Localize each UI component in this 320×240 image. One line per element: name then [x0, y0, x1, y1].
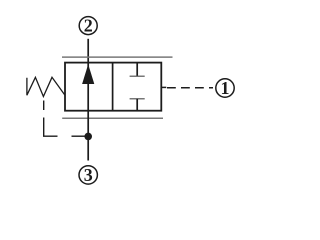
blocked port T bottom stem [136, 99, 138, 111]
blocked port T top bar [130, 75, 145, 77]
infinite-positioning rail top [62, 56, 173, 58]
svg-text:1: 1 [221, 78, 230, 98]
port circle 1 [216, 78, 234, 98]
stub to port 1 [161, 86, 166, 88]
port circle 2 [79, 16, 97, 36]
dashed spring-chamber drain: horizontal dash [72, 135, 85, 137]
junction node [84, 133, 92, 141]
flow arrow (poppet) [82, 64, 94, 84]
wire port2 to valve body [87, 39, 89, 63]
dashed pilot line to port 1 [167, 87, 213, 89]
envelope divider [112, 63, 114, 111]
port circle 3 [79, 165, 97, 185]
blocked port T bottom bar [130, 98, 145, 100]
wire through left position down to port 3 [87, 63, 89, 161]
spring [27, 77, 65, 96]
infinite-positioning rail bottom [62, 117, 163, 119]
valve envelope body [65, 63, 161, 111]
svg-text:2: 2 [84, 16, 93, 36]
svg-text:3: 3 [84, 165, 93, 185]
blocked port T top stem [136, 63, 138, 77]
dashed spring-chamber drain: corner dash [44, 118, 58, 137]
dashed spring-chamber drain: vertical dash [43, 101, 45, 111]
